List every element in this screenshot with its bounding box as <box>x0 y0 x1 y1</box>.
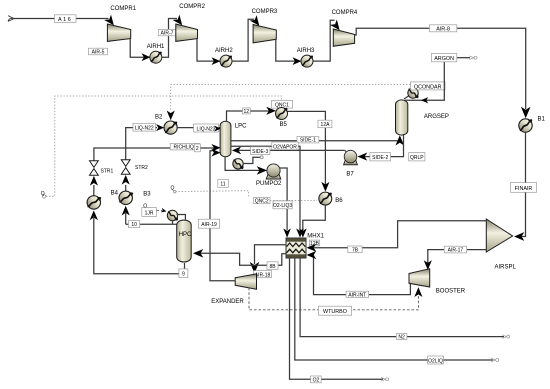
stream label SIDE-1 <box>297 137 319 144</box>
svg-text:LIQ-N22: LIQ-N22 <box>135 126 154 132</box>
wire B7 to LPC SIDE-3 <box>239 149 345 151</box>
arrow into B1 <box>521 107 531 119</box>
heater B1 <box>519 119 532 132</box>
product terminal ARGON <box>469 56 477 60</box>
wire O2VAPOR LPC to MHX1 <box>231 146 300 230</box>
heater B4 <box>118 190 133 205</box>
stream label O2LIQ <box>428 356 444 364</box>
stream label AIR-8 <box>430 25 457 33</box>
column HPC <box>177 220 192 262</box>
svg-text:COMPR1: COMPR1 <box>110 6 136 12</box>
arrow into BOOSTER top <box>424 260 432 270</box>
svg-text:10: 10 <box>131 222 137 228</box>
svg-text:AIR-18: AIR-18 <box>255 272 271 278</box>
heater AIRH3 <box>301 55 313 67</box>
compressor COMPR2 <box>176 24 198 41</box>
svg-text:RICHLIQ2: RICHLIQ2 <box>173 145 196 151</box>
arrow into B2 left <box>156 124 164 131</box>
heat label QNC2 <box>254 198 271 205</box>
wire 12B B6 to MHX1 <box>303 205 326 230</box>
arrow into MHX1 right lower <box>307 251 317 259</box>
product terminal O2LIQ <box>491 358 499 362</box>
svg-text:8B: 8B <box>269 264 276 270</box>
svg-text:B2: B2 <box>155 115 163 121</box>
wire AIR-17 AIRSPL to BOOSTER <box>428 250 487 263</box>
svg-text:AIR-7: AIR-7 <box>161 31 174 37</box>
arrows into MHX1 top <box>283 228 291 237</box>
svg-text:O2VAPOR: O2VAPOR <box>273 144 297 150</box>
work stream WTURBO expander to booster <box>249 288 418 310</box>
heater QCONDAR (tilted) <box>404 88 418 99</box>
product terminal N2 <box>502 335 510 339</box>
stream label 12A <box>318 120 332 128</box>
wire 12 LPC top to B5 <box>227 111 275 122</box>
stream label LIQ-N22 <box>133 123 156 131</box>
wire AIR-19 EXPANDER to LPC <box>210 151 235 281</box>
wire STR1 to RICHLIQ2 to LPC <box>94 148 215 161</box>
valve STR2 <box>121 160 130 174</box>
svg-text:9: 9 <box>182 272 185 278</box>
svg-text:AIRH3: AIRH3 <box>297 48 315 54</box>
wire 12A B5 to B6 <box>288 111 326 185</box>
svg-text:AIRH2: AIRH2 <box>215 48 233 54</box>
wire AIR-INT BOOSTER to MHX1 <box>308 255 410 295</box>
splitter AIRSPL <box>486 219 512 252</box>
stream label LIQ-N23 <box>194 124 219 132</box>
arrow into EXPANDER <box>250 262 260 274</box>
svg-text:Q: Q <box>171 186 175 192</box>
arrow into B3 bottom <box>90 210 98 220</box>
stream label AIR-18 <box>254 271 272 279</box>
svg-text:A16: A16 <box>58 17 72 23</box>
heater B6 <box>319 192 332 205</box>
arrow into STR2 <box>122 175 130 185</box>
arrow into COMPR3 <box>250 15 263 28</box>
svg-text:2: 2 <box>196 146 199 152</box>
stream label AIR <box>55 15 77 23</box>
wire COMPR3 to AIRH3 <box>276 39 300 61</box>
svg-text:MHX1: MHX1 <box>307 233 324 239</box>
svg-text:PUMPO2: PUMPO2 <box>256 181 282 187</box>
wire SIDE-2 ARGSEP bottoms to B7 <box>359 134 404 157</box>
exchanger MHX1 <box>286 233 325 258</box>
heat stream Q to QNC2 <box>176 191 249 198</box>
svg-text:SIDE-3: SIDE-3 <box>252 149 268 155</box>
arrow into STR1 <box>90 176 98 186</box>
svg-text:FINAIR: FINAIR <box>515 186 533 192</box>
stream label 9 <box>179 269 188 278</box>
stream label 12B <box>309 240 319 247</box>
svg-text:B4: B4 <box>111 191 119 197</box>
wire B7 out to LPC line <box>345 150 346 151</box>
svg-text:B1: B1 <box>538 117 546 123</box>
svg-text:WTURBO: WTURBO <box>323 309 347 315</box>
heat stream 1JR to HPC condenser <box>156 209 162 211</box>
svg-text:QRLP: QRLP <box>410 155 424 161</box>
svg-text:QNC2: QNC2 <box>255 199 269 205</box>
wire O2LIQ product <box>295 258 493 360</box>
arrow into COMPR4 <box>330 19 343 32</box>
arrow into B7 <box>358 153 368 161</box>
arrow into COMPR2 <box>173 15 186 28</box>
wire 7B AIRSPL to MHX1 <box>308 221 487 248</box>
wire AIRH1 to COMPR2 <box>162 19 178 58</box>
svg-text:O2LIQ: O2LIQ <box>428 358 443 364</box>
wire AIR-18 MHX1 to EXPANDER <box>255 245 287 264</box>
wire O2 product <box>290 258 384 379</box>
arrow into MHX1 right upper <box>307 244 317 252</box>
heat label QRLP <box>409 153 425 162</box>
stream label 2 <box>194 144 200 152</box>
stream label 8B <box>267 262 278 270</box>
product terminal O2 <box>381 378 389 382</box>
heat label Q 1JR <box>142 203 157 216</box>
wire O2-LIQ3 pump to MHX1 <box>280 168 288 230</box>
compressor COMPR4 <box>333 29 354 46</box>
svg-text:STR1: STR1 <box>101 169 114 175</box>
arrow into LPC left upper <box>214 126 221 132</box>
arrow into B5 <box>266 107 276 115</box>
stream label AIR-19 <box>198 219 219 228</box>
wire AIRH3 to COMPR4 <box>313 20 335 61</box>
pump B7 <box>344 150 358 164</box>
wire SIDE-1 LPC to ARGSEP <box>231 137 400 141</box>
stream label N2 <box>396 334 407 341</box>
wire N2 product <box>300 258 504 337</box>
heater under STR1 <box>86 195 101 210</box>
stream label SIDE-3 <box>251 147 270 155</box>
column LPC <box>220 121 247 156</box>
arrow into HPC right <box>193 249 203 258</box>
svg-text:EXPANDER: EXPANDER <box>211 299 244 305</box>
compressor BOOSTER <box>409 269 430 287</box>
svg-text:AIR-INT: AIR-INT <box>348 292 366 298</box>
wire COMPR4 AIR-8 to B1 <box>354 28 525 109</box>
svg-text:BOOSTER: BOOSTER <box>436 289 466 295</box>
svg-text:STR2: STR2 <box>135 165 148 171</box>
svg-text:7B: 7B <box>352 248 359 254</box>
svg-text:HPC: HPC <box>179 232 192 238</box>
svg-text:AIR-8: AIR-8 <box>436 27 450 33</box>
wire exchanger B3 to STR1 <box>93 185 95 196</box>
arrow into LPC left lower <box>211 144 220 152</box>
arrow into B4 bottom <box>122 206 130 216</box>
svg-text:COMPR2: COMPR2 <box>179 4 205 10</box>
work label WTURBO <box>318 306 351 315</box>
wire AIRH2 to COMPR3 <box>232 19 255 61</box>
heat label QNC1 <box>271 101 292 109</box>
wire COMPR2 to AIRH2 <box>197 38 219 61</box>
svg-text:11: 11 <box>220 182 225 188</box>
svg-text:1JR: 1JR <box>145 211 154 217</box>
svg-text:QCONDAR: QCONDAR <box>414 84 442 90</box>
svg-text:Q: Q <box>41 191 45 197</box>
arrow into B6 <box>321 182 329 192</box>
stream label SIDE-2 <box>370 153 391 162</box>
svg-text:O2: O2 <box>313 378 320 384</box>
stream label 11 <box>218 179 229 187</box>
svg-text:ARGON: ARGON <box>434 56 454 62</box>
compressor COMPR1 <box>107 24 130 41</box>
stream label O2 <box>311 376 322 384</box>
svg-text:LPC: LPC <box>235 123 247 129</box>
svg-text:COMPR4: COMPR4 <box>332 10 358 16</box>
stream label 10 <box>129 221 140 229</box>
svg-text:AIRH1: AIRH1 <box>147 44 165 50</box>
svg-text:SIDE-1: SIDE-1 <box>300 138 316 144</box>
heat label QCONDAR <box>411 82 446 90</box>
heater AIRH1 <box>150 51 162 63</box>
column ARGSEP <box>395 100 448 135</box>
svg-text:ARGSEP: ARGSEP <box>424 114 449 120</box>
wire FINAIR B1 to AIRSPL <box>518 133 526 237</box>
svg-text:LIQ-N23: LIQ-N23 <box>197 126 216 132</box>
stream label O2VAPOR <box>272 142 298 150</box>
stream label RICHLIQ2 <box>170 143 199 150</box>
wire B2 to LIQ-N23 to LPC <box>178 127 221 129</box>
stream label AIR-INT <box>346 291 369 298</box>
stream label FINAIR <box>511 183 537 193</box>
svg-text:SIDE-2: SIDE-2 <box>372 155 388 161</box>
stream label 7B <box>348 246 362 254</box>
arrow into AIRSPL <box>514 232 524 241</box>
wire 10 from HPC to B4 <box>125 212 127 224</box>
wire ARGON from ARGSEP top <box>405 62 444 100</box>
compressor COMPR3 <box>253 25 276 43</box>
wire 9 from HPC bottom to B3 <box>94 216 185 274</box>
svg-text:O2-LIQ3: O2-LIQ3 <box>273 203 292 209</box>
wire COMPR1 to AIRH1 <box>130 38 149 57</box>
svg-text:12A: 12A <box>321 122 331 128</box>
stream label AIR-17 <box>444 246 467 254</box>
heater HPC condenser (tilted) <box>167 210 185 224</box>
arrow into COMPR1 <box>104 15 117 28</box>
wire feed AIR to COMPR1 <box>12 18 109 20</box>
stream label ARGON <box>431 53 456 62</box>
svg-text:B7: B7 <box>346 172 354 178</box>
heater AIRH2 <box>220 55 232 67</box>
heater B2 <box>164 121 177 134</box>
heater LPC reboiler (tilted) <box>233 156 263 169</box>
svg-text:B5: B5 <box>280 122 288 128</box>
wire 8B MHX1 to HPC <box>197 253 287 265</box>
svg-text:12: 12 <box>244 109 250 115</box>
stream label AIR-7 <box>158 30 176 37</box>
svg-text:AIR-17: AIR-17 <box>448 248 464 254</box>
svg-text:N2: N2 <box>398 335 405 341</box>
svg-text:AIR-5: AIR-5 <box>92 50 105 56</box>
svg-text:COMPR3: COMPR3 <box>252 9 278 15</box>
arrow into BOOSTER bottom <box>414 287 422 297</box>
arrow into LPC from AIR-19 <box>211 149 220 157</box>
turbine EXPANDER <box>235 274 256 290</box>
svg-text:AIRSPL: AIRSPL <box>495 264 517 270</box>
wire STR2 to LIQ-N22 to B2 <box>126 128 157 161</box>
arrow into LPC right <box>232 147 241 155</box>
wire B4 to STR2 <box>125 185 127 191</box>
svg-text:B6: B6 <box>335 198 343 204</box>
heat stream QCONDAR to B2 (dotted) <box>171 85 411 112</box>
wire LPC sump to PUMPO2 <box>225 157 265 171</box>
feed terminal <box>8 16 14 22</box>
stream label AIR-5 <box>89 48 108 55</box>
heat stream Q to QNC1 (dotted) <box>46 96 282 196</box>
svg-text:AIR-19: AIR-19 <box>201 222 217 228</box>
arrow into ARGSEP bottom <box>395 135 404 145</box>
valve STR1 <box>90 161 99 175</box>
arrow into B2 top <box>167 111 175 121</box>
arrow into AIRH1 <box>142 53 151 61</box>
heat terminal Q left <box>41 191 46 198</box>
heater B5 <box>276 108 288 120</box>
stream label O2-LIQ3 <box>273 201 292 209</box>
pump PUMPO2 <box>266 164 281 179</box>
arrow into AIRH2 <box>212 57 221 65</box>
arrow into PUMPO2 <box>257 166 267 175</box>
svg-text:B3: B3 <box>143 192 151 198</box>
arrow into AIRH3 <box>293 57 302 65</box>
stream label 12 <box>243 108 251 115</box>
heat stream QNC2 to B6 (dashed) <box>270 200 317 202</box>
